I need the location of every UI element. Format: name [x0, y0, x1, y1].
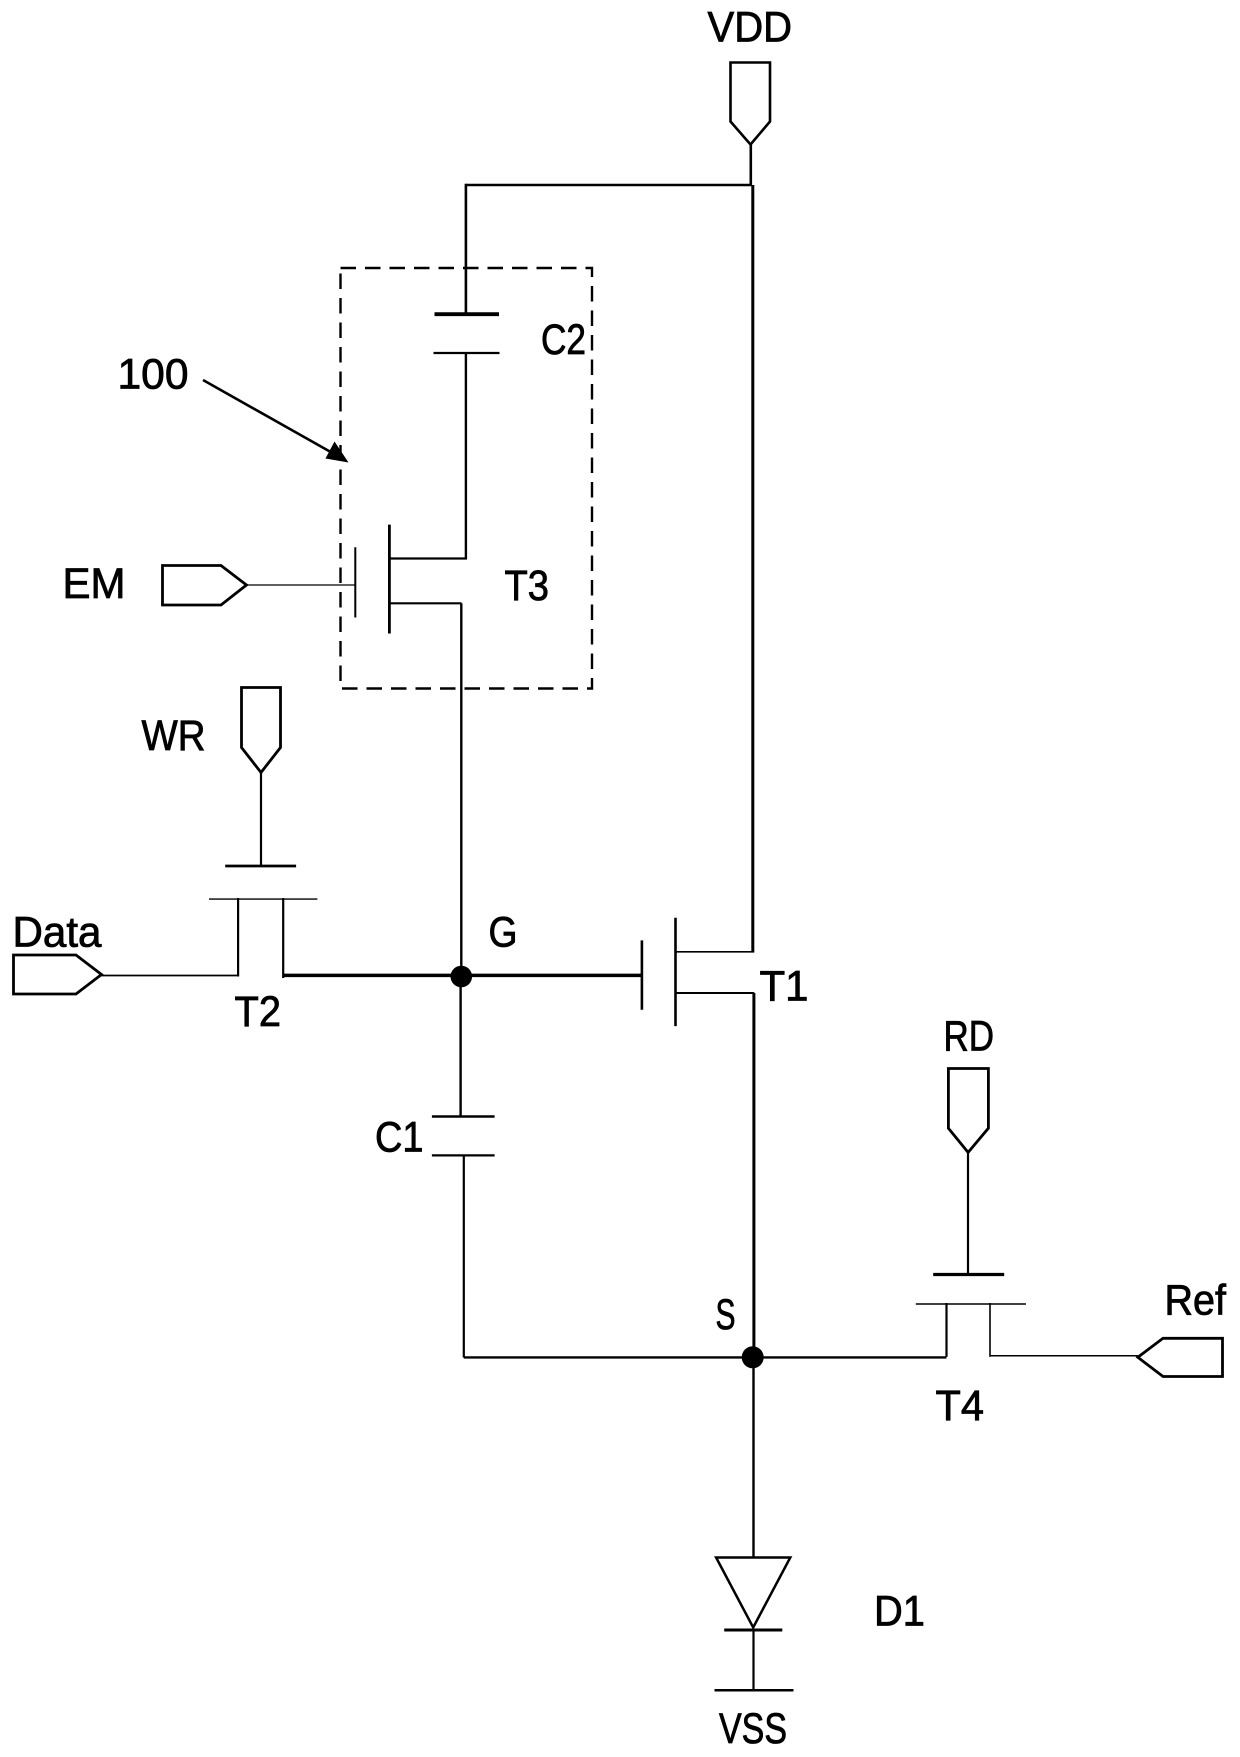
svg-text:C1: C1 — [375, 1114, 424, 1162]
svg-text:EM: EM — [63, 560, 126, 608]
svg-text:T4: T4 — [936, 1382, 985, 1430]
svg-text:WR: WR — [142, 712, 206, 760]
wire EM to T3 gate — [246, 584, 355, 586]
svg-text:C2: C2 — [541, 316, 586, 364]
terminal VDD — [731, 63, 771, 145]
transistor T4 right stub — [989, 1303, 991, 1357]
transistor T2 gate bar — [225, 865, 296, 868]
transistor T4 channel bar — [916, 1303, 1026, 1305]
terminal Data — [14, 955, 102, 994]
transistor T1 gate bar — [641, 940, 644, 1009]
svg-text:D1: D1 — [874, 1588, 925, 1636]
transistor T1 source stub — [676, 992, 755, 994]
transistor T3 gate bar — [354, 547, 356, 617]
svg-text:VDD: VDD — [708, 4, 793, 52]
transistor T3 drain stub — [389, 557, 467, 559]
svg-text:RD: RD — [944, 1013, 995, 1061]
svg-text:VSS: VSS — [719, 1705, 787, 1753]
node S junction dot — [742, 1346, 764, 1368]
capacitor C2 top plate — [435, 312, 500, 316]
transistor T2 right stub — [282, 898, 284, 978]
svg-text:T3: T3 — [505, 562, 550, 610]
VSS rail bar — [715, 1689, 794, 1692]
terminal WR — [242, 688, 281, 773]
capacitor C1 bottom plate — [432, 1154, 495, 1156]
wire T2 to node G — [283, 974, 462, 978]
wire T1 source down to node S — [752, 993, 755, 1358]
wire from top horizontal down to C2 — [465, 184, 468, 314]
wire T4 to Ref — [990, 1355, 1138, 1357]
transistor T2 channel bar — [209, 898, 317, 900]
wire C2 bottom to T3 drain — [465, 353, 467, 559]
dashed box 100 — [341, 268, 593, 689]
svg-text:T1: T1 — [760, 963, 809, 1011]
capacitor C2 bottom plate — [434, 352, 500, 354]
terminal EM — [163, 566, 247, 606]
wire VDD tip down to junction — [749, 144, 752, 186]
transistor T4 gate bar — [933, 1273, 1004, 1276]
wire node S down to D1 — [752, 1357, 754, 1558]
wire node G to T1 gate — [461, 974, 642, 978]
transistor T3 source stub — [389, 602, 462, 604]
wire top horizontal from C2 branch to VDD rail — [466, 184, 752, 187]
wire VDD rail down to T1 drain — [751, 185, 754, 952]
wire C1 to node S — [464, 1356, 753, 1358]
transistor T3 channel bar — [388, 525, 391, 634]
svg-text:Ref: Ref — [1165, 1277, 1227, 1325]
terminal RD — [948, 1069, 988, 1153]
diode D1 cathode bar — [724, 1629, 782, 1632]
wire node G down to C1 — [459, 977, 461, 1117]
svg-text:S: S — [716, 1291, 736, 1339]
capacitor C1 top plate — [432, 1115, 495, 1118]
transistor T1 drain stub — [676, 951, 755, 953]
transistor T2 left stub — [237, 898, 239, 977]
wire D1 to VSS — [752, 1630, 754, 1690]
wire Data to T2 — [102, 975, 240, 977]
diode D1 triangle — [716, 1558, 790, 1628]
wire C1 bottom down — [463, 1155, 465, 1357]
transistor T4 left stub — [945, 1303, 947, 1357]
arrow pointing to dashed box — [203, 380, 336, 455]
transistor T1 channel bar — [674, 918, 677, 1026]
node G junction dot — [451, 966, 473, 988]
svg-text:Data: Data — [13, 909, 102, 957]
svg-text:G: G — [489, 909, 518, 957]
svg-text:100: 100 — [118, 351, 189, 399]
wire RD to T4 gate — [967, 1152, 969, 1275]
wire node S to T4 — [753, 1356, 947, 1358]
wire T3 source down to node G — [460, 603, 462, 977]
wire WR to T2 gate — [260, 772, 262, 866]
svg-text:T2: T2 — [235, 988, 282, 1036]
terminal Ref — [1138, 1338, 1223, 1376]
